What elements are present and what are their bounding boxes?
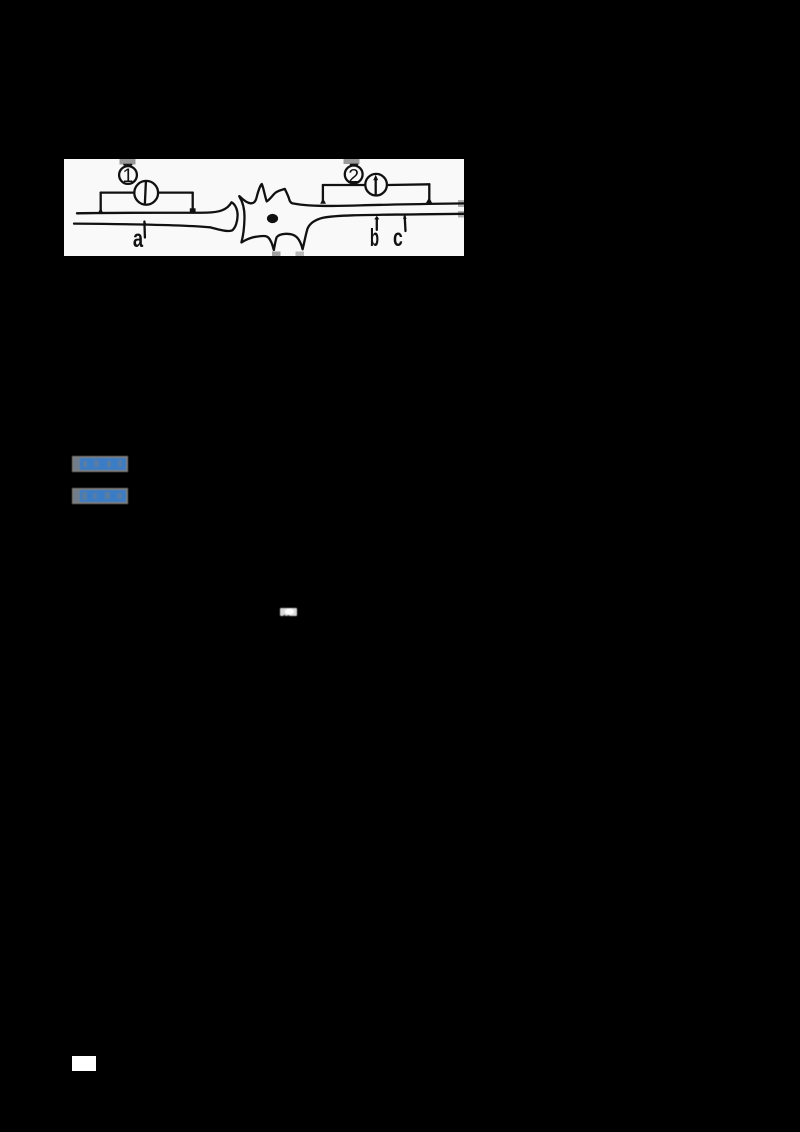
gray smudge bottom right <box>296 252 305 257</box>
G2 needle arrowhead <box>373 175 378 181</box>
wire left vertical 1 <box>100 193 102 211</box>
gray mark right edge bottom <box>458 211 464 218</box>
electrode 2 right <box>426 197 432 203</box>
synaptic crescent <box>239 196 244 242</box>
galvanometer G1 circle <box>134 181 158 205</box>
circle label 1 <box>119 166 137 184</box>
svg-text:1: 1 <box>122 165 133 187</box>
blue button 1 <box>72 456 128 472</box>
circle label 2 <box>345 166 363 184</box>
small stamp blob <box>280 608 297 616</box>
gray smudge bottom left <box>272 252 281 257</box>
svg-text:a: a <box>133 225 144 253</box>
galvanometer G1 needle <box>145 182 146 204</box>
wire left vertical 2 <box>322 185 324 202</box>
soma top outline <box>240 184 464 206</box>
gray tab 1 <box>120 159 136 165</box>
tab1 dark underline <box>123 164 132 166</box>
a tick arrowhead <box>143 220 147 225</box>
gray mark right edge top <box>458 200 464 207</box>
tab2 dark underline <box>350 164 358 166</box>
svg-text:b: b <box>370 224 379 252</box>
panel background <box>64 159 464 256</box>
svg-text:c: c <box>393 224 403 252</box>
soma bottom outline <box>242 214 464 250</box>
blue button 2 <box>72 488 128 504</box>
wire top left 2 <box>323 184 364 186</box>
wire right vertical 2 <box>428 184 430 200</box>
nucleus <box>267 214 278 223</box>
left axon with terminal bell <box>74 202 238 231</box>
wire right vertical 1 <box>192 193 194 209</box>
electrode 1 right <box>190 208 196 213</box>
diagram panel <box>64 159 464 256</box>
electrode 1 left <box>98 208 104 214</box>
wire top right 2 <box>388 183 429 186</box>
wire top right 1 <box>158 191 193 193</box>
pointer tick a <box>143 222 146 238</box>
pointer arrow b <box>376 219 378 230</box>
svg-text:2: 2 <box>348 165 359 187</box>
galvanometer G2 circle <box>365 174 387 196</box>
c tick arrowhead <box>403 216 407 219</box>
b arrowhead <box>374 216 379 220</box>
pointer tick c <box>404 217 407 232</box>
wire top left 1 <box>101 191 135 193</box>
gray tab 2 <box>344 159 360 164</box>
electrode 2 left <box>320 198 326 204</box>
galvanometer G2 needle arrow shaft <box>375 178 377 194</box>
white block bottom left <box>72 1056 96 1071</box>
